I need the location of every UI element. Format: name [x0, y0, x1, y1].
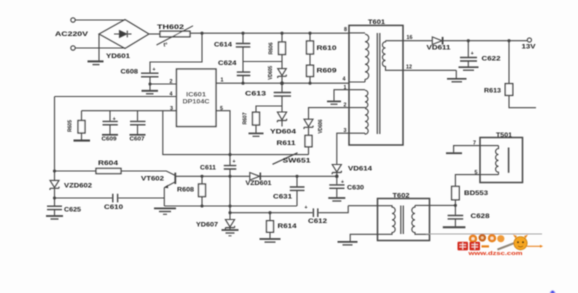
svg-text:C622: C622 — [482, 56, 502, 63]
svg-text:C624: C624 — [218, 60, 237, 67]
resistor BD553 — [452, 186, 489, 215]
wire bridge positive to thermistor — [149, 33, 160, 35]
zener VZD601 — [246, 173, 338, 187]
ground at pin 12 — [447, 70, 467, 82]
T602 secondary winding — [412, 205, 456, 234]
capacitor C609 — [102, 111, 118, 143]
svg-text:T602: T602 — [393, 192, 411, 199]
watermark logo dzsc — [458, 234, 556, 293]
T601 pin 1 stub to bar — [334, 90, 349, 101]
capacitor C624 — [218, 47, 250, 83]
ground under C607 — [130, 134, 146, 136]
svg-text:T501: T501 — [496, 132, 513, 139]
switch SW651 — [273, 153, 312, 165]
T601 pin 12 label — [406, 65, 412, 71]
node AC input terminal bottom — [71, 46, 75, 50]
resistor R611 — [277, 135, 313, 154]
wire IC pin4 to left rail — [55, 96, 177, 98]
capacitor C628 — [448, 213, 491, 226]
resistor R604 — [96, 160, 121, 174]
resistor R607 — [243, 112, 260, 133]
svg-text:R606: R606 — [269, 42, 275, 54]
svg-text:DP104C: DP104C — [183, 99, 211, 106]
svg-text:C613: C613 — [245, 91, 267, 98]
T501 winding — [496, 146, 499, 175]
svg-text:C614: C614 — [214, 42, 233, 49]
transistor VT602 — [141, 173, 175, 206]
ground under C625 — [46, 216, 63, 219]
wire pin16 to VD611 — [403, 40, 432, 42]
wire bus to C608 — [150, 33, 202, 72]
svg-text:IC601: IC601 — [186, 92, 207, 99]
ground at VT602 emitter — [154, 208, 176, 214]
capacitor C608 — [121, 67, 159, 90]
capacitor C610 — [55, 194, 165, 211]
capacitor C607 — [130, 111, 146, 143]
wire C613 to R607 branch — [256, 106, 282, 112]
svg-text:3: 3 — [344, 128, 347, 134]
svg-text:R613: R613 — [484, 88, 502, 95]
capacitor C622 — [460, 41, 501, 67]
T601 winding pins 1-2 — [349, 90, 368, 108]
cursor mark blue — [550, 290, 556, 293]
transformer T602 — [378, 192, 430, 240]
T601 pin 3 label — [344, 128, 347, 134]
svg-text:+: + — [341, 179, 344, 185]
T601 winding pins 2-3 — [349, 109, 368, 135]
wire AC neutral to bridge bottom — [75, 47, 125, 49]
svg-text:R611: R611 — [277, 140, 297, 147]
svg-text:R614: R614 — [278, 223, 298, 230]
T601 pin 1 label — [344, 85, 347, 91]
pin 3 label — [170, 106, 173, 112]
wire VD611 to 13V — [443, 40, 527, 42]
svg-text:R610: R610 — [317, 45, 338, 52]
svg-text:C612: C612 — [308, 218, 328, 225]
svg-text:AC220V: AC220V — [55, 31, 89, 38]
resistor R605 — [68, 111, 86, 140]
op-amp IC601 DP104C — [177, 69, 217, 127]
pin 5 label — [220, 106, 223, 112]
pin 2 label — [170, 79, 173, 85]
wire IC pin2 to C608 node — [149, 83, 177, 85]
bar terminal pin7 — [446, 152, 462, 154]
svg-text:2: 2 — [170, 79, 173, 85]
wire IC pin5 down — [216, 111, 230, 165]
capacitor C614 — [214, 33, 250, 48]
wire T601 pin2 to VD606 — [309, 108, 350, 120]
svg-text:R605: R605 — [68, 120, 74, 132]
ground under R614 — [260, 239, 281, 242]
capacitor C613 — [245, 83, 291, 112]
ground under C622 — [459, 67, 479, 70]
svg-text:4: 4 — [343, 77, 346, 83]
bridge rectifier YD601 — [99, 20, 149, 61]
capacitor C630 — [329, 179, 364, 197]
svg-text:13V: 13V — [522, 44, 537, 51]
T601 pin 8 label — [344, 27, 347, 33]
svg-text:+: + — [471, 51, 474, 57]
svg-text:TH602: TH602 — [157, 24, 185, 31]
wire pin5 to BD553 — [455, 175, 498, 187]
svg-text:T601: T601 — [368, 19, 386, 26]
wire T601 pin3 down — [337, 133, 349, 164]
wire R604 to VT602 base — [121, 171, 175, 175]
transformer T501 — [480, 132, 523, 182]
svg-text:8: 8 — [344, 27, 347, 33]
svg-text:YD601: YD601 — [106, 53, 131, 60]
wire left rail to R604 — [54, 170, 97, 172]
svg-text:VD611: VD611 — [427, 45, 452, 52]
ground at T602 primary — [338, 242, 358, 245]
svg-text:VD606: VD606 — [318, 119, 324, 133]
svg-text:R607: R607 — [243, 112, 249, 124]
svg-text:C625: C625 — [64, 207, 82, 214]
ground under C628 — [443, 226, 466, 228]
capacitor C631 — [273, 175, 305, 206]
svg-text:VZD602: VZD602 — [64, 182, 93, 189]
capacitor C612 — [305, 205, 349, 225]
wire IC pin3 bus — [82, 110, 177, 112]
wire R613 down and right — [509, 95, 536, 107]
node 13V output — [522, 38, 537, 51]
resistor R613 — [484, 41, 513, 96]
pin 1 label — [221, 78, 224, 84]
T601 secondary winding — [382, 41, 456, 71]
svg-text:R604: R604 — [98, 160, 119, 167]
thermistor TH602 — [157, 24, 194, 49]
wire collector line — [175, 175, 250, 177]
resistor R606 — [269, 33, 286, 54]
ground under R605 — [74, 140, 91, 142]
svg-text:t°: t° — [164, 43, 168, 49]
ground under YD607 — [222, 230, 239, 236]
resistor R608 — [177, 176, 206, 206]
zener VD606 — [304, 119, 324, 135]
svg-text:16: 16 — [407, 35, 413, 41]
wire C624 junction to VD605 junction — [243, 61, 282, 63]
svg-text:1: 1 — [344, 85, 347, 91]
svg-text:R609: R609 — [317, 68, 338, 75]
ground under C608 — [142, 91, 159, 94]
svg-text:YD607: YD607 — [196, 222, 219, 229]
capacitor C611 — [200, 159, 236, 176]
svg-text:VT602: VT602 — [141, 175, 165, 182]
svg-text:+: + — [233, 159, 236, 165]
svg-text:VD614: VD614 — [348, 166, 373, 173]
svg-text:12: 12 — [406, 65, 412, 71]
wire pin3 branch down and across — [163, 111, 309, 156]
ground under C630 — [328, 198, 345, 201]
svg-text:C631: C631 — [273, 194, 293, 201]
svg-text:SW651: SW651 — [283, 157, 312, 164]
wire IC pin1 to T601 pin4 — [216, 82, 349, 84]
svg-text:+: + — [113, 117, 116, 123]
svg-text:1: 1 — [221, 78, 224, 84]
svg-text:+: + — [305, 205, 308, 211]
wire AC live to bridge top — [75, 19, 125, 21]
wire pin7 to terminal — [454, 146, 499, 153]
svg-text:R608: R608 — [177, 187, 195, 194]
resistor R614 — [267, 213, 298, 239]
wire bottom W1 — [164, 205, 296, 207]
T602 primary winding — [348, 206, 395, 242]
T501 pin 5 label — [475, 170, 478, 176]
svg-text:+: + — [153, 67, 156, 73]
ground under R607 — [249, 133, 264, 136]
watermark separator line — [426, 233, 542, 235]
T601 pin 2 label — [344, 102, 347, 108]
zener VD614 — [332, 165, 373, 185]
wire bridge negative to ground — [98, 34, 100, 60]
resistor R609 — [307, 54, 338, 83]
svg-text:YD604: YD604 — [270, 129, 297, 136]
T601 pin 16 label — [407, 35, 413, 41]
zener VD605 — [268, 55, 286, 85]
transformer T601 — [349, 19, 403, 145]
svg-text:2: 2 — [344, 102, 347, 108]
T602 core — [401, 206, 404, 235]
svg-text:C610: C610 — [104, 204, 124, 211]
zener YD604 — [270, 112, 297, 136]
wire main DC bus — [190, 32, 349, 34]
wire pin5 column to W2 — [229, 176, 231, 219]
pin 4 label — [170, 92, 173, 98]
label AC220V — [55, 31, 89, 38]
capacitor C625 — [47, 206, 82, 215]
T601 core — [377, 33, 380, 134]
svg-text:www.dzsc.com: www.dzsc.com — [467, 251, 522, 257]
wire bottom W2 — [229, 212, 313, 214]
svg-text:C630: C630 — [347, 184, 365, 191]
svg-text:BD553: BD553 — [464, 190, 489, 197]
ground under bridge — [88, 61, 104, 64]
svg-text:C607: C607 — [130, 137, 145, 143]
svg-text:VD605: VD605 — [268, 66, 274, 80]
svg-text:C608: C608 — [121, 68, 139, 75]
T601 pin 4 label — [343, 77, 346, 83]
svg-text:VZD601: VZD601 — [246, 180, 273, 187]
T601 primary winding top — [349, 33, 369, 82]
svg-text:C628: C628 — [471, 213, 491, 220]
bar terminal pin1 — [327, 101, 341, 104]
ground under C609 — [102, 134, 118, 136]
zener YD607 — [196, 220, 235, 230]
T501 pin 7 label — [473, 141, 476, 147]
node AC input terminal top — [71, 18, 75, 22]
svg-text:C611: C611 — [200, 165, 217, 172]
zener VZD602 — [50, 97, 93, 206]
T501 core — [508, 148, 510, 173]
svg-text:C609: C609 — [102, 137, 117, 143]
resistor R610 — [307, 33, 338, 54]
diode VD611 — [427, 37, 452, 52]
